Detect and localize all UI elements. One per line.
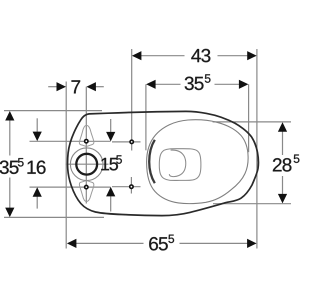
bowl back wall arc (dark crescent) xyxy=(149,140,155,183)
wire: 28.5 bottom reference line xyxy=(213,203,291,205)
dimension 28.5 right vertical xyxy=(282,132,284,195)
node: tank hole marker bottom xyxy=(130,185,133,188)
node: tank hole marker top xyxy=(130,140,133,143)
wire: extension line left (7 / 65.5) xyxy=(65,82,67,249)
wire: top extent extension line xyxy=(4,110,102,112)
node: seat hole marker bottom xyxy=(85,185,88,188)
dimension 16 label xyxy=(28,161,46,174)
bowl inner rim xyxy=(147,120,249,204)
dimension 65.5 bottom xyxy=(76,242,248,244)
dimension 35.5 top xyxy=(155,83,239,85)
wire: centerline of fixing holes (7 right ext) xyxy=(85,87,87,204)
wire: extension line 35.5 top left xyxy=(145,84,147,150)
wire: bottom extent extension line xyxy=(4,216,104,218)
t15 xyxy=(116,155,122,163)
wire: extension line right (43 / 65.5) xyxy=(256,49,258,249)
ceramic pan silhouette xyxy=(68,111,259,215)
wire: extension line 43 left / tank hole axis xyxy=(131,49,133,151)
wire: lower hole reference line xyxy=(30,186,111,188)
dimension 7 xyxy=(48,86,104,88)
seat fixing hole bottom (teardrop) xyxy=(79,181,93,202)
t35L xyxy=(18,158,24,166)
wire: bottom cross marker vertical arm xyxy=(130,177,132,194)
wire: top cross marker horizontal arm xyxy=(112,141,141,143)
dimension 16 arrows xyxy=(36,118,38,208)
wire: bottom cross marker horizontal arm xyxy=(112,186,141,188)
t65 xyxy=(168,235,174,243)
sump outlet outline xyxy=(169,150,185,177)
wire: extension line 35.5 top right xyxy=(248,84,250,152)
t35t xyxy=(205,74,211,82)
dimension 35.5 left vertical xyxy=(9,120,11,208)
dimension 43 xyxy=(141,55,248,57)
dimension 15.5 arrows xyxy=(110,119,112,212)
water area outline xyxy=(159,149,201,181)
flush pipe hole outer circle xyxy=(70,148,103,181)
wire: 28.5 top reference line xyxy=(213,121,291,123)
t28 xyxy=(294,155,300,163)
seat fixing hole top (teardrop) xyxy=(79,125,93,146)
node: seat hole marker top xyxy=(85,140,88,143)
wire: upper hole reference line xyxy=(30,140,111,142)
flush pipe hole inner ring xyxy=(76,154,97,175)
wire: flush hole horizontal crosshair xyxy=(66,163,109,165)
